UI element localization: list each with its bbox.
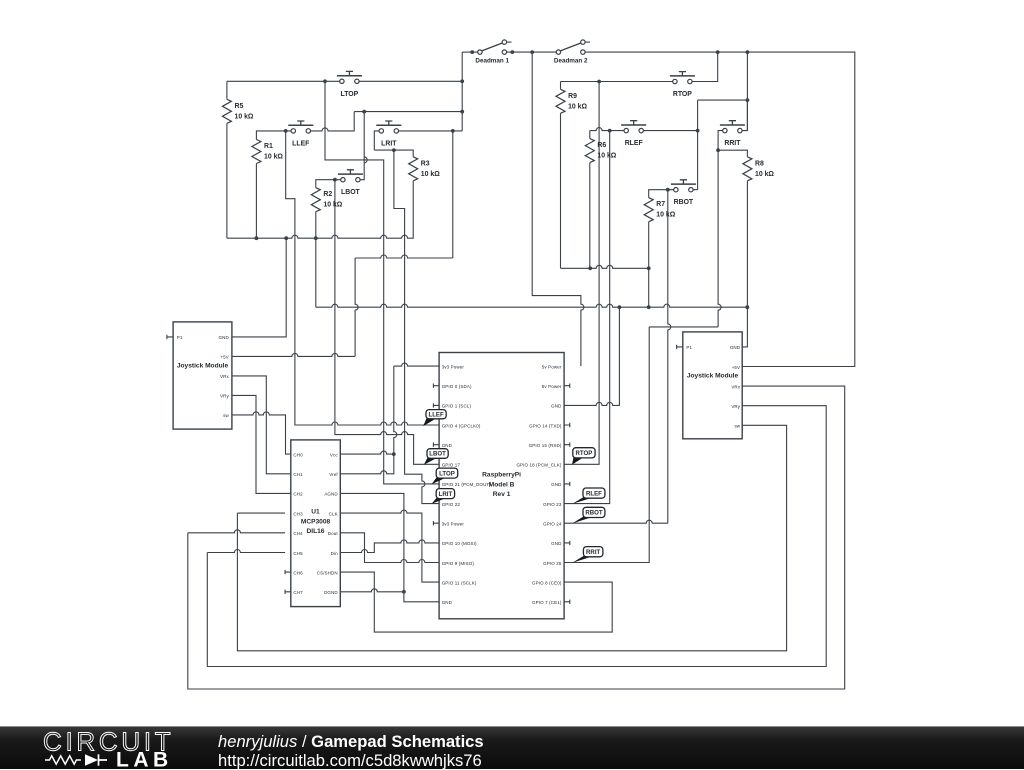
- RaspberryPi left nc stub y=385.7: [433, 384, 439, 388]
- svg-text:VRx: VRx: [220, 374, 229, 379]
- svg-text:RLEF: RLEF: [586, 490, 602, 497]
- svg-text:RLEF: RLEF: [625, 140, 643, 147]
- svg-text:GPIO 15 (RXD): GPIO 15 (RXD): [529, 443, 562, 448]
- wire LRIT row y=150.1 to R3 top: [374, 150, 413, 157]
- svg-text:VRy: VRy: [731, 404, 740, 409]
- svg-text:3v3 Power: 3v3 Power: [442, 522, 465, 527]
- svg-text:Rev 1: Rev 1: [493, 491, 511, 498]
- svg-text:R7: R7: [656, 201, 665, 208]
- wire supply vertical from top rail through RRIT right: [746, 52, 748, 131]
- RaspberryPi right nc stub y=483.9: [564, 482, 570, 486]
- svg-text:R5: R5: [235, 103, 244, 110]
- net flag RRIT: [572, 556, 595, 563]
- wire RBOT right terminal up to supply row: [692, 100, 697, 190]
- junction at (512.3,52.1): [510, 50, 514, 54]
- wire R9 top lead: [560, 82, 562, 90]
- svg-text:U1: U1: [311, 509, 320, 516]
- svg-text:Joystick Module: Joystick Module: [177, 362, 229, 369]
- svg-text:10 kΩ: 10 kΩ: [755, 171, 774, 178]
- svg-text:RTOP: RTOP: [673, 91, 692, 98]
- svg-text:VRx: VRx: [731, 384, 740, 389]
- svg-text:+5V: +5V: [220, 355, 229, 360]
- wire RLEF right wire to supply vertical: [644, 130, 698, 132]
- resistor R9 10 kΩ: [556, 89, 565, 113]
- svg-text:GND: GND: [551, 482, 562, 487]
- svg-text:LAB: LAB: [116, 749, 173, 770]
- svg-text:CH0: CH0: [293, 452, 303, 457]
- svg-text:10 kΩ: 10 kΩ: [421, 171, 440, 178]
- pushbutton RTOP: [670, 72, 695, 84]
- right joystick P1 stub (nc): [677, 345, 683, 349]
- svg-text:LTOP: LTOP: [341, 91, 359, 98]
- resistor R5 10 kΩ: [222, 99, 231, 123]
- svg-text:RBOT: RBOT: [674, 199, 694, 206]
- junction at (667.8,189.7): [666, 188, 670, 192]
- svg-text:5v Power: 5v Power: [542, 384, 562, 389]
- wire MCP AGND down to RaspberryPi GND (bottom left): [340, 493, 439, 601]
- net flag RBOT: [572, 516, 594, 523]
- svg-text:CH7: CH7: [293, 590, 303, 595]
- wire Deadman2 out along top to right loop, down to right joystick +5V: [586, 52, 855, 366]
- svg-text:MCP3008: MCP3008: [301, 519, 331, 526]
- svg-text:R8: R8: [755, 160, 764, 167]
- svg-text:sw: sw: [223, 413, 229, 418]
- svg-text:GND: GND: [442, 443, 453, 448]
- svg-text:10 kΩ: 10 kΩ: [323, 202, 342, 209]
- svg-text:CH5: CH5: [293, 551, 303, 556]
- wire R2 bottom lead through rail to GND bus corner: [315, 212, 317, 308]
- svg-text:LBOT: LBOT: [341, 189, 361, 196]
- wire net of y=258 distribution from LRIT-row vertical: [452, 131, 454, 258]
- resistor R3 10 kΩ: [409, 157, 418, 181]
- svg-text:CH4: CH4: [293, 531, 303, 536]
- junction at (452.8,130.9): [451, 129, 455, 133]
- svg-text:10 kΩ: 10 kΩ: [656, 212, 675, 219]
- svg-text:10 kΩ: 10 kΩ: [597, 153, 616, 160]
- svg-text:CH1: CH1: [293, 472, 303, 477]
- RaspberryPi right nc stub y=601.8: [564, 600, 570, 604]
- junction at (747.4,52.1): [746, 50, 750, 54]
- wire LLEF-left junction vertical down, jog, to GPIO 4 (GPCLK0) with hops: [286, 131, 439, 425]
- wire Deadman mid-net down to 5v Power pin of RaspberryPi: [532, 52, 584, 366]
- wire RBOT net vertical down (hops GND bus and RRIT row) to GPIO 24 row: [668, 190, 671, 524]
- junction at (286.2,238.2): [284, 236, 288, 240]
- wire supply row y=100.1: [698, 99, 748, 101]
- wire R8 bottom lead down to right joystick GND: [742, 181, 747, 347]
- svg-text:DIL16: DIL16: [307, 528, 325, 535]
- IC U1 MCP3008 outline: [291, 440, 341, 607]
- svg-text:Vcc: Vcc: [330, 452, 338, 457]
- wire left joystick GND pin up to rail: [232, 238, 286, 337]
- net flag LRIT: [432, 497, 448, 504]
- wire left joystick sw to MCP CH0 (hops VRy,VRx verticals): [232, 412, 291, 454]
- RaspberryPi right nc stub y=425.0: [564, 423, 570, 427]
- wire RLEF left wire to R6 top (hop over RTOP vertical): [590, 128, 624, 139]
- svg-text:VRy: VRy: [220, 394, 229, 399]
- wire R1 bottom lead to rail: [255, 164, 257, 239]
- junction at (334.9,179.7): [333, 178, 337, 182]
- wire left joystick +5V pin row (hops LLEF and LBOT verticals): [232, 353, 355, 356]
- svg-text:GPIO 4 (GPCLK0): GPIO 4 (GPCLK0): [442, 423, 481, 428]
- junction at (747.4,100.1): [746, 98, 750, 102]
- svg-text:3v3 Power: 3v3 Power: [442, 364, 465, 369]
- svg-text:GPIO 23: GPIO 23: [543, 502, 562, 507]
- wire LRIT left terminal down to y=150.1 row: [374, 131, 379, 150]
- wire LTOP-left vertical down, across y=159.9, down to GPIO 21 (PCM_DOUT): [325, 81, 439, 484]
- wire MCP Vref up to 3v3 net: [340, 454, 394, 474]
- junction at (285.7,130.9): [284, 129, 288, 133]
- wire Deadman1 out to Deadman2 common: [507, 51, 556, 53]
- svg-text:LRIT: LRIT: [439, 491, 453, 498]
- junction at (403.9,591.8): [402, 590, 406, 594]
- switch Deadman 1 (SPDT): [478, 40, 512, 54]
- wire RRIT net vertical down (hops GND bus) to y=326.9 then GPIO 25: [718, 150, 721, 327]
- net flag LTOP: [432, 477, 448, 484]
- svg-text:GPIO 22: GPIO 22: [442, 502, 461, 507]
- wire MCP Dout down to GPIO 9 (MISO) row: [340, 533, 439, 563]
- wire RRIT right terminal up to supply junction: [742, 100, 747, 131]
- svg-text:Deadman 2: Deadman 2: [554, 57, 588, 64]
- junction at (393.9,150.1): [392, 148, 396, 152]
- wire RRIT y=326.9 run (hop over RBOT vertical): [649, 326, 718, 328]
- svg-text:LLEF: LLEF: [292, 140, 309, 147]
- pushbutton RRIT: [720, 121, 745, 133]
- svg-text:GPIO 7 (CE1): GPIO 7 (CE1): [532, 600, 562, 605]
- junction at (697.6,130.6): [696, 129, 700, 133]
- junction at (648.7,268.3): [647, 266, 651, 270]
- wire RBOT left wire to R7 top: [649, 190, 674, 198]
- net flag RTOP: [572, 457, 584, 465]
- junction at (532.2,52.1): [530, 50, 534, 54]
- Joystick Module P1 (right) outline: [683, 332, 742, 439]
- svg-text:GPIO 18 (PCM_CLK): GPIO 18 (PCM_CLK): [516, 463, 561, 468]
- wire 5V supply row to Deadman 1 (y=52): [462, 51, 477, 53]
- wire long GND bus y=307.2 with hops and junctions: [316, 304, 748, 307]
- wire LLEF right, hop over LTOP-left vertical, up to y=111.6 bus: [311, 112, 355, 131]
- svg-text:GPIO 11 (SCLK): GPIO 11 (SCLK): [442, 580, 477, 585]
- wire MCP CH4 around bottom loop to right joystick VRx: [188, 386, 845, 689]
- svg-text:AGND: AGND: [324, 492, 338, 497]
- wire RRIT vertical to GPIO 25: [564, 327, 649, 563]
- svg-text:GPIO 10 (MOSI): GPIO 10 (MOSI): [442, 541, 477, 546]
- svg-text:LRIT: LRIT: [381, 140, 397, 147]
- wire left joystick VRx to MCP CH1: [232, 376, 291, 474]
- pushbutton RLEF: [621, 121, 646, 133]
- RaspberryPi right nc stub y=444.7: [564, 443, 570, 447]
- RaspberryPi left nc stub y=444.7: [433, 443, 439, 447]
- RaspberryPi left nc stub y=523.2: [433, 521, 439, 525]
- wire R9 top row to RTOP: [561, 81, 673, 83]
- wire y=111.6 bus to Deadman1 vertical: [354, 111, 462, 113]
- svg-text:GND: GND: [442, 600, 453, 605]
- svg-text:GPIO 14 (TXD): GPIO 14 (TXD): [529, 423, 562, 428]
- wire MCP CH5 around bottom loop to right joystick VRy: [207, 406, 826, 667]
- svg-text:RRIT: RRIT: [586, 549, 600, 556]
- resistor R7 10 kΩ: [644, 198, 653, 222]
- left joystick P1 stub (nc): [167, 335, 173, 339]
- svg-text:GPIO 24: GPIO 24: [543, 522, 562, 527]
- wire R5 top row to LTOP left (y=81.3): [227, 80, 340, 82]
- junction at (599.1,81.5): [597, 80, 601, 84]
- junction at (619.4,307.2): [618, 305, 622, 309]
- svg-text:10 kΩ: 10 kΩ: [235, 113, 254, 120]
- svg-text:R2: R2: [323, 191, 332, 198]
- svg-text:R9: R9: [568, 93, 577, 100]
- wire +5V riser to left joystick (hops GND bus): [355, 258, 358, 356]
- wire LLEF left wire to R1: [256, 131, 291, 140]
- RaspberryPi right nc stub y=542.9: [564, 541, 570, 545]
- wire 3v3 vertical down to Vcc junction (hops GPIO4 and LBOT rows): [394, 366, 397, 454]
- svg-text:10 kΩ: 10 kΩ: [264, 154, 283, 161]
- Joystick Module P1 (left) outline: [173, 322, 232, 429]
- wire LRIT right terminal row to Deadman1 vertical (y=130.9): [399, 130, 463, 132]
- pushbutton LLEF: [288, 121, 313, 133]
- junction at (325,81.3): [323, 79, 327, 83]
- wire MCP Din up to GPIO 10 (MOSI) row: [340, 540, 439, 553]
- wire GND row y=268.3 with hops over RTOP/RLEF verticals: [561, 265, 649, 268]
- svg-text:5v Power: 5v Power: [542, 364, 562, 369]
- junction at (609.7,130.6): [608, 129, 612, 133]
- junction at (648.7,307.2): [647, 305, 651, 309]
- wire LBOT net vertical down to GPIO 17 with hops and jog: [335, 180, 439, 465]
- wire MCP Vcc to 3v3 net: [340, 451, 394, 454]
- wire MCP CH3 around bottom loop to right joystick sw: [237, 425, 786, 651]
- svg-text:CH2: CH2: [293, 492, 303, 497]
- MCP3008 CH6 stub (nc): [285, 570, 291, 574]
- svg-text:DGND: DGND: [324, 590, 338, 595]
- svg-text:10 kΩ: 10 kΩ: [568, 103, 587, 110]
- svg-text:R1: R1: [264, 143, 273, 150]
- wire y=258 run with hops over LTOP and LRIT verticals: [355, 255, 453, 258]
- junction at (462.2,111.6): [460, 110, 464, 114]
- svg-text:R3: R3: [421, 160, 430, 167]
- wire MCP CLK to GPIO 11 (SCLK) (hops AGND vertical): [340, 510, 439, 582]
- svg-text:Vref: Vref: [329, 472, 338, 477]
- wire GND right pin to riser (hops RTOP,RLEF verticals): [564, 307, 619, 405]
- wire RTOP right up to top rail: [692, 52, 718, 81]
- svg-text:GND: GND: [551, 541, 562, 546]
- svg-text:LBOT: LBOT: [429, 451, 446, 458]
- svg-text:RTOP: RTOP: [576, 450, 593, 457]
- svg-text:RBOT: RBOT: [585, 510, 603, 517]
- svg-text:GPIO 1 (SCL): GPIO 1 (SCL): [442, 404, 472, 409]
- junction at (462.2,81.3): [460, 79, 464, 83]
- svg-text:RRIT: RRIT: [724, 140, 741, 147]
- svg-text:GND: GND: [730, 345, 741, 350]
- pushbutton LTOP: [337, 71, 362, 83]
- svg-text:GPIO 0 (SDA): GPIO 0 (SDA): [442, 384, 472, 389]
- junction at (747.3,307.2): [745, 305, 749, 309]
- CircuitLab logo: [0, 727, 220, 769]
- svg-text:CH3: CH3: [293, 511, 303, 516]
- resistor R8 10 kΩ: [743, 157, 752, 181]
- junction at (472.2,52.1): [470, 50, 474, 54]
- svg-text:R6: R6: [597, 142, 606, 149]
- pushbutton LRIT: [376, 121, 401, 133]
- junction at (718.1,150.2): [716, 148, 720, 152]
- svg-text:GPIO 25: GPIO 25: [543, 561, 562, 566]
- net flag RLEF: [572, 497, 594, 504]
- junction at (256.4,238.2): [255, 236, 259, 240]
- resistor R2 10 kΩ: [311, 188, 320, 212]
- svg-text:GPIO 9 (MISO): GPIO 9 (MISO): [442, 561, 475, 566]
- svg-text:+5V: +5V: [732, 365, 741, 370]
- RaspberryPi left nc stub y=405.4: [433, 403, 439, 407]
- net flag LBOT: [424, 457, 439, 465]
- wire LBOT left to R2: [316, 180, 341, 188]
- wire R5 top lead: [226, 81, 228, 99]
- wire MCP CS/SHDN around bottom to GPIO 8 (CE0): [340, 572, 612, 632]
- wire RLEF net vertical down to GPIO 23: [564, 131, 610, 504]
- svg-text:CH6: CH6: [293, 570, 303, 575]
- wire LRIT net vertical with jog down to GPIO 22: [394, 150, 439, 504]
- MCP3008 CH7 stub (nc): [285, 590, 291, 594]
- svg-text:GPIO 17: GPIO 17: [442, 463, 461, 468]
- svg-text:Dout: Dout: [328, 531, 339, 536]
- junction at (590.2,268.3): [588, 266, 592, 270]
- svg-text:CS/SHDN: CS/SHDN: [317, 570, 338, 575]
- wire R6 bottom lead to GND row: [589, 163, 591, 269]
- wire 3v3 Power pin to vertical (hops LRIT vertical): [394, 363, 439, 366]
- svg-text:P1: P1: [177, 335, 183, 340]
- svg-text:CLK: CLK: [329, 511, 338, 516]
- pushbutton RBOT: [671, 180, 696, 192]
- switch Deadman 2 (SPDT): [556, 40, 590, 54]
- svg-text:Din: Din: [331, 551, 338, 556]
- wire LTOP right to Deadman1 vertical: [359, 80, 462, 82]
- svg-text:Model B: Model B: [489, 481, 515, 488]
- svg-text:Joystick Module: Joystick Module: [687, 372, 739, 379]
- pushbutton LBOT: [338, 170, 363, 182]
- svg-text:RaspberryPi: RaspberryPi: [482, 472, 521, 479]
- junction at (315.8,238.2): [314, 236, 318, 240]
- wire RRIT row to R8 top: [718, 150, 747, 157]
- svg-text:GPIO 8 (CE0): GPIO 8 (CE0): [532, 580, 562, 585]
- RaspberryPi Model B outline: [439, 353, 564, 619]
- svg-text:LLEF: LLEF: [428, 411, 444, 418]
- wire left GND rail (y=238.2) with hops, ends rising to R3: [227, 181, 413, 238]
- svg-text:Deadman 1: Deadman 1: [475, 57, 509, 64]
- net flag LLEF: [423, 418, 437, 427]
- wire R5 bottom lead to GND rail: [226, 123, 228, 238]
- svg-text:GND: GND: [551, 404, 562, 409]
- junction at (393.8,454.1): [392, 452, 396, 456]
- svg-text:P1: P1: [686, 345, 692, 350]
- svg-text:GPIO 21 (PCM_DOUT): GPIO 21 (PCM_DOUT): [442, 482, 492, 487]
- junction at (364.2,111.6): [362, 110, 366, 114]
- wire R7 bottom lead to GND rows: [648, 222, 650, 308]
- svg-text:LTOP: LTOP: [439, 470, 455, 477]
- wire LBOT right terminal up to y=111.6 bus (hops y=159.9): [360, 112, 367, 180]
- RaspberryPi right nc stub y=385.7: [564, 384, 570, 388]
- wire Deadman1 common down-left vertical to LRIT row: [461, 52, 463, 131]
- wire RTOP net vertical down to GPIO 18 (PCM_CLK): [564, 82, 599, 465]
- svg-text:sw: sw: [734, 424, 740, 429]
- wire RRIT left terminal down to y=150.2 row: [718, 131, 723, 151]
- resistor R6 10 kΩ: [585, 139, 594, 163]
- wire GPIO 24 row to RBOT vertical (hop over RRIT vertical): [564, 520, 668, 523]
- resistor R1 10 kΩ: [252, 140, 261, 164]
- junction at (717.7,52.1): [716, 50, 720, 54]
- svg-text:GND: GND: [219, 335, 230, 340]
- wire MCP DGND to AGND junction (hops CS vertical): [340, 589, 404, 592]
- wire R9 bottom lead to GND row y=268.3: [560, 113, 562, 268]
- wire left joystick VRy to MCP CH2: [232, 395, 291, 493]
